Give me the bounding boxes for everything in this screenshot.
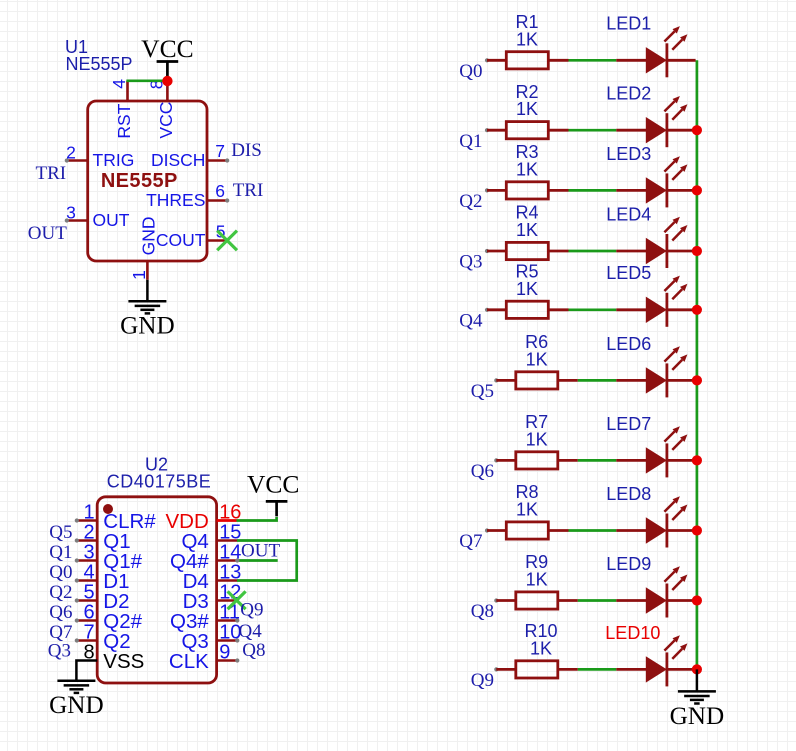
wire LED8 cathode to bus (667, 529, 696, 532)
svg-text:Q4: Q4 (459, 310, 483, 331)
net label Q6 (U2 pin 6) (49, 602, 72, 623)
svg-text:LED4: LED4 (606, 204, 651, 224)
svg-text:2: 2 (83, 522, 94, 544)
svg-text:NE555P: NE555P (101, 170, 178, 192)
LED LED6 (606, 334, 687, 398)
svg-text:LED1: LED1 (606, 14, 651, 34)
svg-text:6: 6 (83, 602, 94, 624)
net label Q2 (R3 input) (459, 191, 482, 212)
svg-text:7: 7 (215, 141, 225, 161)
wire U2 pin14 (net OUT) (235, 558, 278, 562)
svg-text:LED3: LED3 (606, 144, 651, 164)
junction LED5/bus (692, 305, 702, 315)
U2 pin 14 Q4# (170, 542, 241, 574)
junction LED9/bus (692, 595, 702, 605)
wire LED6 cathode to bus (667, 379, 696, 382)
net label Q7 (U2 pin 7) (49, 622, 72, 643)
net label Q7 (R8 input) (459, 531, 482, 552)
wire R9 to LED9 (578, 599, 617, 602)
U1 pin 2 TRIG (65, 142, 135, 170)
svg-text:1: 1 (129, 270, 149, 280)
net label TRI (U1 pin2) (36, 163, 67, 184)
net label Q3 (R4 input) (459, 252, 482, 273)
svg-text:NE555P: NE555P (66, 54, 133, 74)
svg-text:3: 3 (83, 542, 94, 564)
svg-text:GND: GND (670, 703, 725, 730)
U1 pin 7 DISCH (151, 141, 229, 170)
resistor R7 (494, 412, 578, 469)
svg-text:Q6: Q6 (49, 602, 72, 623)
svg-text:LED9: LED9 (606, 554, 651, 574)
wire LED3 cathode to bus (667, 189, 696, 192)
net label OUT (U2 pin14) (241, 541, 280, 562)
resistor R4 (485, 203, 569, 260)
U2 pin 12 D3 (183, 582, 242, 614)
IC U2 CD40175BE body (97, 497, 216, 683)
net label Q3 (U2 pin 8) (48, 640, 71, 661)
net label Q5 (U2 pin 2) (49, 522, 72, 543)
svg-text:GND: GND (120, 313, 175, 340)
svg-text:Q1: Q1 (49, 542, 72, 563)
wire LED7 cathode to bus (667, 459, 696, 462)
no-connect flag U1 pin 5 (217, 231, 237, 251)
ground (U2) (49, 680, 104, 719)
wire LED5 cathode to bus (667, 308, 696, 311)
resistor R10 (494, 621, 578, 678)
U1 pin 6 THRES (146, 181, 229, 210)
svg-text:DISCH: DISCH (151, 150, 205, 170)
net label Q9 (U2 pin 11) (235, 600, 263, 623)
svg-text:LED8: LED8 (606, 484, 651, 504)
wire U2 pin16 to VCC (217, 517, 277, 521)
LED LED9 (606, 554, 687, 618)
resistor R3 (485, 142, 569, 199)
wire LED10 cathode to bus (667, 668, 696, 671)
wire R8 to LED8 (569, 529, 617, 532)
svg-text:VCC: VCC (141, 34, 193, 63)
junction LED6/bus (692, 375, 702, 385)
svg-text:TRIG: TRIG (93, 150, 135, 170)
svg-text:3: 3 (66, 202, 76, 222)
svg-text:Q0: Q0 (459, 61, 482, 82)
svg-text:RST: RST (114, 103, 134, 138)
resistor R5 (485, 262, 569, 319)
svg-text:1K: 1K (516, 500, 538, 520)
LED LED8 (606, 484, 687, 548)
ground (LED bus) (670, 691, 725, 730)
wire LED cathode bus (to GND) (696, 60, 699, 669)
LED LED3 (606, 144, 687, 208)
svg-text:LED6: LED6 (606, 334, 651, 354)
LED LED1 (606, 14, 687, 78)
U1 pin 8 VCC (147, 79, 176, 138)
svg-text:Q2: Q2 (49, 582, 72, 603)
junction U1 VCC (162, 76, 172, 86)
svg-text:OUT: OUT (28, 223, 67, 244)
U2 pin 11 Q3# (170, 602, 240, 634)
U2 pin 13 D4 (183, 562, 242, 594)
U2 pin 3 Q1# (75, 542, 143, 574)
svg-text:Q9: Q9 (471, 670, 494, 691)
net label Q4 (R5 input) (459, 310, 483, 331)
U1 pin 4 RST (109, 79, 134, 139)
U1 pin 3 OUT (65, 202, 130, 230)
net label Q8 (R9 input) (471, 601, 494, 622)
svg-text:OUT: OUT (93, 210, 130, 230)
svg-text:LED5: LED5 (606, 263, 651, 283)
U2 reference label (107, 455, 212, 492)
wire U2 pin8 to ground (76, 661, 97, 681)
LED LED2 (606, 84, 687, 148)
svg-text:6: 6 (215, 181, 225, 201)
svg-text:VCC: VCC (247, 470, 299, 499)
svg-text:LED10: LED10 (605, 623, 660, 643)
U2 pin 8 VSS (83, 642, 144, 674)
net label Q4 (U2 pin 10) (235, 621, 262, 643)
resistor R6 (494, 332, 578, 389)
net label DIS (U1 pin7) (231, 140, 262, 161)
net label Q1 (U2 pin 3) (49, 542, 72, 563)
U1 pin 1 GND (129, 217, 159, 280)
svg-text:1K: 1K (516, 279, 538, 299)
junction LED7/bus (692, 455, 702, 465)
svg-text:Q9: Q9 (240, 600, 263, 621)
wire R1 to LED1 (569, 59, 617, 62)
svg-text:GND: GND (49, 692, 104, 719)
svg-text:VCC: VCC (156, 102, 176, 139)
U2 pin 15 Q4 (181, 522, 241, 554)
LED LED5 (606, 263, 687, 327)
svg-text:Q8: Q8 (242, 640, 265, 661)
svg-text:CLK: CLK (169, 650, 209, 673)
svg-text:5: 5 (83, 582, 94, 604)
resistor R1 (485, 12, 569, 69)
U2 pin 6 Q2# (75, 602, 143, 634)
junction LED2/bus (692, 125, 702, 135)
svg-text:Q7: Q7 (459, 531, 482, 552)
net label Q9 (R10 input) (471, 670, 494, 691)
resistor R9 (494, 552, 578, 609)
junction LED10/bus (692, 664, 702, 674)
svg-text:Q2: Q2 (459, 191, 482, 212)
svg-text:Q3: Q3 (459, 252, 482, 273)
svg-text:COUT: COUT (156, 230, 206, 250)
net label Q5 (R6 input) (471, 381, 494, 402)
svg-text:VSS: VSS (103, 650, 144, 673)
U1 pin 5 COUT (156, 221, 227, 250)
wire R4 to LED4 (569, 250, 617, 253)
svg-text:1K: 1K (530, 638, 552, 658)
wire bus to ground (696, 669, 699, 691)
net label Q8 (U2 pin 9) (235, 640, 265, 663)
svg-text:Q8: Q8 (471, 601, 494, 622)
svg-text:Q5: Q5 (471, 381, 494, 402)
power flag VCC (U2) (247, 470, 299, 517)
svg-text:1K: 1K (516, 29, 538, 49)
no-connect flag U2 pin 12 (228, 591, 246, 609)
svg-text:LED2: LED2 (606, 84, 651, 104)
wire R10 to LED10 (578, 668, 617, 671)
svg-text:1K: 1K (516, 99, 538, 119)
net label Q0 (U2 pin 4) (49, 562, 72, 583)
U2 pin 16 VDD (166, 502, 242, 534)
U2 pin 2 Q1 (75, 522, 131, 554)
wire R5 to LED5 (569, 308, 617, 311)
net label Q2 (U2 pin 5) (49, 582, 72, 603)
svg-text:1K: 1K (516, 159, 538, 179)
power flag VCC (U1) (141, 34, 193, 77)
svg-text:TRI: TRI (233, 180, 264, 201)
svg-text:2: 2 (66, 142, 76, 162)
junction LED3/bus (692, 185, 702, 195)
net label Q6 (R7 input) (471, 461, 494, 482)
svg-text:Q0: Q0 (49, 562, 72, 583)
svg-text:GND: GND (139, 217, 159, 256)
wire U2 pin15 to pin13 (feedback loop) (237, 541, 297, 581)
U2 pin 4 D1 (75, 562, 130, 594)
svg-text:Q1: Q1 (459, 131, 482, 152)
svg-text:TRI: TRI (36, 163, 67, 184)
U2 pin 9 CLK (169, 642, 237, 674)
svg-text:1K: 1K (526, 429, 548, 449)
wire R6 to LED6 (578, 379, 617, 382)
svg-text:OUT: OUT (241, 541, 280, 562)
net label OUT (U1 pin3) (28, 223, 67, 244)
wire LED4 cathode to bus (667, 250, 696, 253)
junction LED4/bus (692, 246, 702, 256)
svg-text:1: 1 (83, 502, 94, 524)
svg-text:1K: 1K (526, 570, 548, 590)
net label TRI (U1 pin6) (233, 180, 264, 201)
wire U1 pin4 to pin8 (VCC net) (126, 80, 163, 83)
svg-text:Q3: Q3 (48, 640, 71, 661)
svg-text:1K: 1K (526, 349, 548, 369)
U1 reference label (65, 37, 133, 74)
wire LED2 cathode to bus (667, 129, 696, 132)
svg-text:1K: 1K (516, 220, 538, 240)
svg-text:CD40175BE: CD40175BE (107, 472, 212, 492)
wire R3 to LED3 (569, 189, 617, 192)
wire LED9 cathode to bus (667, 599, 696, 602)
U2 pin 7 Q2 (75, 622, 131, 654)
svg-text:DIS: DIS (231, 140, 262, 161)
IC U1 NE555P body (88, 101, 207, 261)
svg-text:4: 4 (83, 562, 94, 584)
net label Q1 (R2 input) (459, 131, 482, 152)
svg-text:Q6: Q6 (471, 461, 494, 482)
resistor R8 (485, 482, 569, 539)
wire U1 pin1 to ground (146, 280, 149, 302)
U2 pin 10 Q3 (181, 622, 241, 654)
U2 pin 1 CLR# (75, 502, 157, 534)
wire R2 to LED2 (569, 129, 617, 132)
svg-text:LED7: LED7 (606, 414, 651, 434)
ground (U1) (120, 301, 175, 340)
resistor R2 (485, 82, 569, 139)
junction LED8/bus (692, 525, 702, 535)
svg-text:THRES: THRES (146, 190, 205, 210)
wire R7 to LED7 (578, 459, 617, 462)
LED LED4 (606, 204, 687, 268)
U2 pin 5 D2 (75, 582, 130, 614)
LED LED7 (606, 414, 687, 478)
wire LED1 cathode to bus (667, 59, 696, 62)
LED LED10 (605, 623, 687, 687)
svg-text:Q5: Q5 (49, 522, 72, 543)
net label Q0 (R1 input) (459, 61, 482, 82)
svg-text:4: 4 (109, 79, 129, 89)
svg-text:9: 9 (219, 642, 230, 664)
svg-text:7: 7 (83, 622, 94, 644)
